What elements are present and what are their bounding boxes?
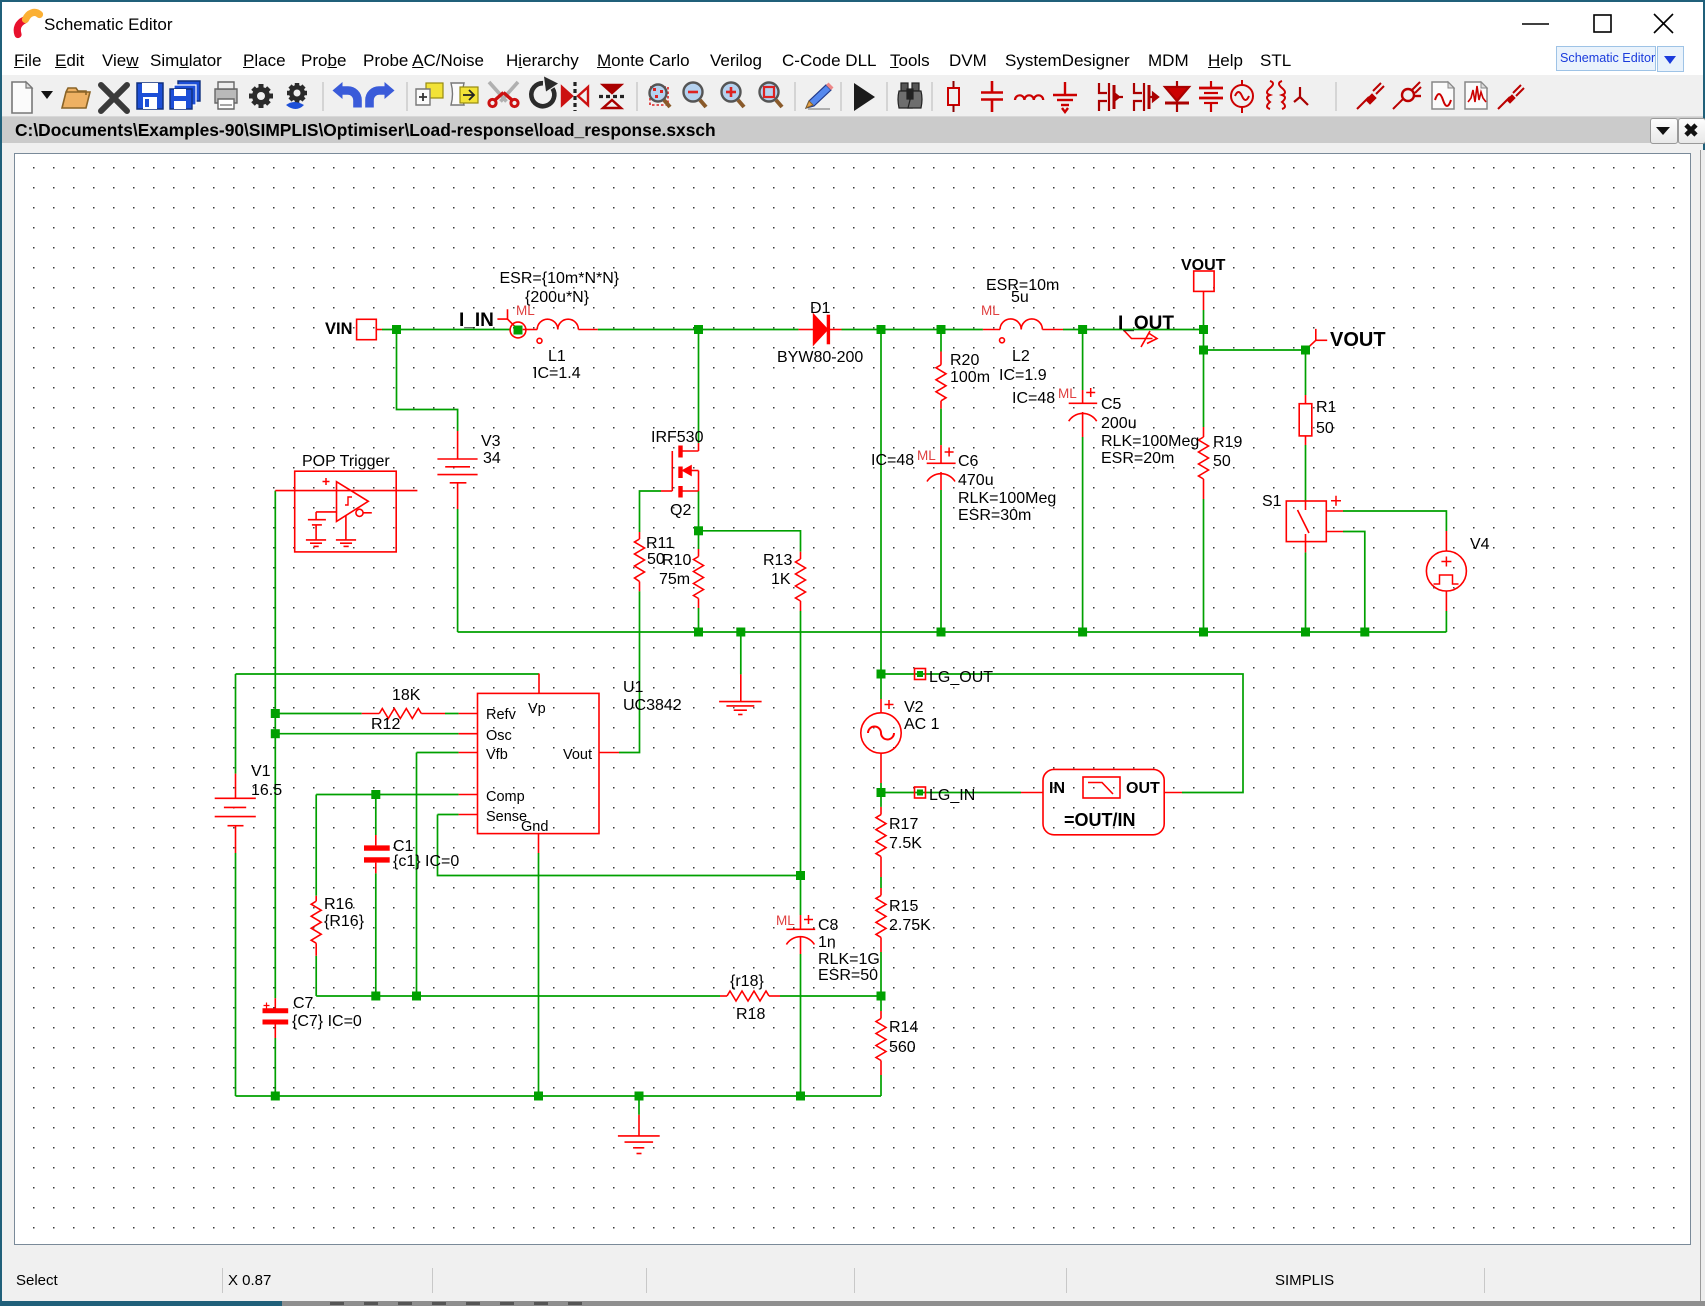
- svg-text:560: 560: [889, 1039, 916, 1056]
- svg-text:U1: U1: [623, 679, 644, 696]
- save: [137, 83, 163, 109]
- sine document: [1432, 82, 1454, 109]
- menu bar: [2, 44, 1703, 75]
- comp: probe marker: [1294, 87, 1308, 105]
- junction R20 branch / top rail: [937, 325, 946, 334]
- svg-text:1n: 1n: [818, 934, 836, 951]
- diode D1: [799, 315, 842, 345]
- capacitor C8: [786, 915, 815, 954]
- svg-text:R14: R14: [889, 1019, 918, 1036]
- junction R13-C8 / Sense wire: [796, 871, 805, 880]
- wire mid rail: [458, 631, 1447, 633]
- netflag square LG_OUT: [917, 671, 923, 677]
- svg-text:5u: 5u: [1011, 289, 1029, 306]
- pencil: [806, 83, 834, 110]
- wire R14 bottom to rail: [880, 1075, 882, 1096]
- svg-text:7.5K: 7.5K: [889, 835, 922, 852]
- svg-text:470u: 470u: [958, 472, 994, 489]
- source V4: [1426, 531, 1466, 611]
- comp: capacitor: [981, 81, 1003, 112]
- wire Osc: [275, 733, 458, 735]
- wire LG_OUT loop: [881, 674, 1243, 793]
- block OUT/IN transfer: [1021, 769, 1182, 834]
- svg-text:75m: 75m: [659, 571, 690, 588]
- resistor R13: [796, 552, 806, 611]
- junction ground sym / bottom rail: [635, 1092, 644, 1101]
- resistor R12 18K: [362, 709, 445, 719]
- probe I_IN: [497, 309, 526, 338]
- resistor R19: [1199, 427, 1209, 499]
- svg-text:LG_OUT: LG_OUT: [929, 669, 993, 686]
- app logo: [17, 20, 24, 35]
- toolbar: [2, 75, 1703, 117]
- wire Comp: [316, 794, 458, 796]
- netflag LG_IN: [915, 787, 926, 798]
- wire D1 to L2: [842, 329, 983, 331]
- terminal VOUT top: [1194, 271, 1214, 310]
- resistor R16: [311, 896, 321, 956]
- wire R1 to S1: [1305, 445, 1307, 501]
- wire R17 chain: [880, 793, 882, 807]
- capacitor C5: [1069, 388, 1098, 437]
- comp: battery: [1199, 81, 1223, 112]
- svg-text:ML: ML: [1058, 386, 1077, 401]
- zoom select: [650, 85, 671, 108]
- POP trigger block: [275, 471, 417, 552]
- junction C5 / mid rail: [1078, 628, 1087, 637]
- ML labels: [516, 303, 1077, 928]
- svg-text:50: 50: [1213, 453, 1231, 470]
- svg-text:V2: V2: [904, 699, 924, 716]
- junction C8 / bottom rail: [796, 1092, 805, 1101]
- print: [215, 89, 237, 103]
- redo: [370, 91, 387, 108]
- junction S1 / mid rail: [1301, 628, 1310, 637]
- wire source to R13: [699, 531, 801, 552]
- probe pen 2 current: [1393, 82, 1421, 109]
- wire C8 top: [800, 876, 802, 916]
- wire R19 bottom to rail: [1203, 499, 1205, 632]
- svg-text:D1: D1: [810, 300, 831, 317]
- resistor R1: [1299, 395, 1312, 445]
- resistor R15: [876, 888, 886, 952]
- wire R16 bottom: [315, 956, 317, 996]
- wire V2 bottom: [880, 783, 882, 793]
- junction C1 / Comp wire: [371, 790, 380, 799]
- svg-text:ESR=50: ESR=50: [818, 967, 878, 984]
- zoom box: [760, 83, 783, 108]
- resistor R10: [694, 549, 704, 608]
- resistor R11: [635, 532, 645, 591]
- ground mid: [719, 674, 762, 714]
- wire VIN branch down to V3: [397, 330, 458, 432]
- wire Gnd pin down: [538, 853, 540, 1096]
- svg-text:R13: R13: [763, 552, 792, 569]
- svg-text:LG_IN: LG_IN: [929, 787, 975, 804]
- svg-text:Refv: Refv: [486, 707, 517, 723]
- svg-text:ML: ML: [776, 913, 795, 928]
- wire LG_IN to block: [881, 792, 1021, 794]
- rotate: [531, 83, 554, 106]
- svg-text:R1: R1: [1316, 399, 1337, 416]
- junction Q2 source node: [694, 526, 703, 535]
- wire C1 top: [375, 795, 377, 836]
- wire C8 bottom: [800, 954, 802, 1096]
- svg-text:Vp: Vp: [528, 701, 546, 717]
- paste to sheet: [451, 83, 464, 105]
- wire R1 top: [1305, 350, 1307, 395]
- svg-text:R12: R12: [371, 716, 400, 733]
- svg-text:R19: R19: [1213, 434, 1242, 451]
- comp: nmos 2: [1134, 83, 1158, 111]
- svg-text:ESR=30m: ESR=30m: [958, 507, 1031, 524]
- svg-text:{R16}: {R16}: [324, 913, 365, 930]
- capacitor C1: [364, 835, 390, 873]
- svg-text:R18: R18: [736, 1006, 765, 1023]
- comp: ac source: [1231, 80, 1253, 113]
- resistor R17: [876, 807, 886, 877]
- copy to sheet: [426, 83, 443, 98]
- inductor L1: [523, 319, 598, 343]
- svg-text:RLK=100Meg: RLK=100Meg: [1101, 433, 1199, 450]
- junction Refv wire: [271, 709, 280, 718]
- terminal VIN: [357, 319, 382, 339]
- cut scissors: [489, 82, 518, 107]
- comp: inductor: [1015, 95, 1043, 100]
- wire R17-R15: [880, 877, 882, 888]
- svg-text:ML: ML: [516, 303, 535, 318]
- wire Refv: [275, 713, 361, 715]
- wire bottom ground stem: [638, 1096, 640, 1115]
- junction Vfb / feedback wire: [412, 992, 421, 1001]
- options gear: [249, 84, 273, 108]
- svg-text:UC3842: UC3842: [623, 697, 682, 714]
- mosfet Q2: [661, 443, 699, 498]
- junction C5 branch / top rail: [1078, 325, 1087, 334]
- svg-text:C7: C7: [293, 995, 314, 1012]
- junction C7 / bottom rail: [271, 1092, 280, 1101]
- wire V1 top: [235, 674, 237, 774]
- title bar: [2, 2, 1703, 44]
- wire R11 to Vout pin: [619, 591, 640, 752]
- wire VOUT terminal lead: [1203, 310, 1205, 330]
- svg-text:R11: R11: [646, 535, 674, 552]
- wire POP to Refv/Osc column: [274, 491, 276, 999]
- svg-text:ML: ML: [981, 303, 1000, 318]
- junction I_IN probe node: [514, 326, 523, 335]
- wire output sense drop: [880, 330, 882, 675]
- svg-text:34: 34: [483, 450, 501, 467]
- wire Sense: [438, 814, 459, 816]
- svg-text:S1: S1: [1262, 493, 1282, 510]
- svg-text:VOUT: VOUT: [1330, 329, 1386, 351]
- wire S1 to V4: [1343, 511, 1446, 531]
- svg-text:Vout: Vout: [563, 747, 592, 763]
- probe I_OUT arrow: [1124, 331, 1157, 348]
- svg-text:R17: R17: [889, 816, 918, 833]
- svg-text:I_OUT: I_OUT: [1118, 313, 1174, 334]
- close X: [101, 85, 127, 111]
- svg-text:R16: R16: [324, 896, 353, 913]
- resistor R18: [720, 991, 780, 1001]
- run/play: [854, 83, 875, 111]
- zoom in: [722, 83, 745, 108]
- wire C1 bottom: [375, 873, 377, 996]
- resistor R20: [936, 352, 946, 409]
- svg-text:{r18}: {r18}: [730, 973, 764, 990]
- junction VIN node: [392, 325, 401, 334]
- svg-text:{C7} IC=0: {C7} IC=0: [292, 1013, 362, 1030]
- bottom edge: window border + sliver of window behind: [0, 1301, 282, 1306]
- junction I_OUT / VOUT node: [1199, 325, 1208, 334]
- capacitor C6: [927, 445, 956, 490]
- inductor L2: [983, 319, 1063, 343]
- junction R10 / mid rail: [694, 628, 703, 637]
- svg-text:R15: R15: [889, 898, 918, 915]
- svg-text:RLK=100Meg: RLK=100Meg: [958, 490, 1056, 507]
- probe pen 3: [1498, 85, 1524, 109]
- wire mid ground stem: [740, 632, 742, 674]
- junction LG_IN node: [877, 788, 886, 797]
- wire Q2 gate to R11: [640, 491, 662, 532]
- wire Vp feed: [236, 673, 540, 675]
- battery V1: [215, 774, 256, 853]
- svg-text:V4: V4: [1470, 536, 1490, 553]
- comp: ground: [1053, 82, 1077, 112]
- junction ground / mid rail: [736, 628, 745, 637]
- wire VIN to I_IN probe: [382, 329, 510, 331]
- svg-text:{c1} IC=0: {c1} IC=0: [393, 853, 459, 870]
- window buttons: [1522, 23, 1549, 25]
- open folder: [62, 88, 90, 108]
- svg-text:OUT: OUT: [1126, 780, 1160, 797]
- junction C6 / mid rail: [937, 628, 946, 637]
- status bar: [2, 1245, 1703, 1304]
- svg-text:R10: R10: [662, 552, 691, 569]
- wire C5 top: [1082, 330, 1084, 391]
- tag VOUT: [1306, 329, 1328, 350]
- junction R19 / mid rail: [1199, 628, 1208, 637]
- junction injection branch / top rail: [877, 325, 886, 334]
- resistor R14: [876, 1011, 886, 1075]
- svg-text:IC=1.9: IC=1.9: [999, 367, 1047, 384]
- junction Gnd pin / bottom rail: [534, 1092, 543, 1101]
- simulator options gear: [286, 83, 307, 109]
- wire R19 top lead: [1203, 350, 1205, 427]
- mirror vertical: [562, 87, 588, 105]
- wire Q2 drain: [698, 330, 700, 444]
- junction Osc wire: [271, 729, 280, 738]
- wire V3 bottom to mid rail: [457, 509, 459, 632]
- svg-text:IC=48: IC=48: [871, 452, 914, 469]
- svg-text:IN: IN: [1049, 780, 1065, 797]
- svg-text:POP Trigger: POP Trigger: [302, 453, 390, 470]
- ground bottom: [618, 1115, 660, 1154]
- svg-text:16.5: 16.5: [251, 782, 282, 799]
- junction R1 branch / VOUT rail: [1301, 346, 1310, 355]
- wire bottom rail: [236, 1095, 882, 1097]
- wire S1 pole to rail: [1305, 552, 1307, 632]
- svg-text:100m: 100m: [950, 369, 990, 386]
- wire C6 bottom: [940, 490, 942, 632]
- new document: [12, 82, 32, 113]
- svg-text:2.75K: 2.75K: [889, 917, 931, 934]
- wire feedback bottom: [316, 995, 720, 997]
- wire Q2 source to R10: [698, 491, 700, 549]
- svg-text:=OUT/IN: =OUT/IN: [1064, 810, 1136, 830]
- svg-text:R20: R20: [950, 352, 979, 369]
- svg-text:C8: C8: [818, 917, 839, 934]
- svg-text:AC 1: AC 1: [904, 716, 940, 733]
- svg-text:BYW80-200: BYW80-200: [777, 349, 863, 366]
- svg-text:IC=1.4: IC=1.4: [533, 365, 581, 382]
- wire R15 to junction: [880, 952, 882, 1011]
- netflag LG_OUT: [915, 669, 926, 680]
- svg-text:I_IN: I_IN: [459, 310, 494, 331]
- svg-text:L2: L2: [1012, 348, 1030, 365]
- netflag square LG_IN: [917, 790, 923, 796]
- junction C1 / feedback wire: [371, 992, 380, 1001]
- svg-text:C6: C6: [958, 453, 979, 470]
- wire C5 bottom: [1082, 437, 1084, 632]
- wire S1 bottom terminal to rail: [1343, 532, 1365, 633]
- svg-text:VOUT: VOUT: [1181, 257, 1226, 274]
- junction LG_OUT node: [877, 670, 886, 679]
- wire R10 bottom: [698, 608, 700, 632]
- svg-text:1K: 1K: [771, 571, 791, 588]
- comp: diode: [1165, 81, 1189, 112]
- svg-text:ML: ML: [917, 448, 936, 463]
- wire out rail second: [1204, 349, 1306, 351]
- undo: [341, 91, 358, 108]
- junction Q2 drain / top rail: [694, 325, 703, 334]
- save all: [178, 81, 200, 101]
- svg-text:VIN: VIN: [325, 320, 353, 338]
- wire VOUT node down: [1203, 330, 1205, 351]
- wire Vfb: [417, 752, 459, 754]
- path bar: [2, 117, 1703, 143]
- wire L1 to D1: [598, 329, 799, 331]
- svg-text:ESR={10m*N*N}: ESR={10m*N*N}: [500, 270, 620, 287]
- svg-text:Osc: Osc: [486, 728, 512, 744]
- wire R13 bottom to sense node: [800, 611, 802, 876]
- wire R20 to C6: [940, 409, 942, 446]
- svg-text:V3: V3: [481, 433, 501, 450]
- comp: nmos 1: [1099, 83, 1123, 111]
- svg-text:L1: L1: [548, 348, 566, 365]
- svg-text:IC=48: IC=48: [1012, 390, 1055, 407]
- wire V1 bottom: [235, 853, 237, 1096]
- comp: coupled inductors: [1267, 81, 1285, 109]
- switch S1: [1286, 496, 1343, 553]
- junction S1 return / mid rail: [1360, 628, 1369, 637]
- wire L2 to VOUT node: [1063, 329, 1204, 331]
- junction VOUT rail node: [1199, 346, 1208, 355]
- svg-text:ESR=20m: ESR=20m: [1101, 450, 1174, 467]
- schematic text labels: [251, 257, 1490, 1056]
- svg-text:Vfb: Vfb: [486, 747, 508, 763]
- zoom out: [684, 83, 707, 108]
- junction R18-R15-R14 node: [877, 992, 886, 1001]
- svg-text:200u: 200u: [1101, 415, 1137, 432]
- svg-text:Comp: Comp: [486, 789, 525, 805]
- svg-text:RLK=1G: RLK=1G: [818, 951, 880, 968]
- svg-text:18K: 18K: [392, 687, 421, 704]
- wire V2 top: [880, 674, 882, 699]
- find binoculars: [898, 83, 922, 108]
- svg-text:V1: V1: [251, 763, 271, 780]
- battery V3: [437, 431, 477, 509]
- comp: resistor: [948, 81, 959, 112]
- svg-text:IRF530: IRF530: [651, 429, 704, 446]
- svg-text:Q2: Q2: [670, 502, 691, 519]
- svg-text:50: 50: [1316, 420, 1334, 437]
- wire C7 bottom: [274, 1038, 276, 1096]
- capacitor C7: [263, 998, 289, 1038]
- source V2: [861, 699, 901, 783]
- svg-text:C5: C5: [1101, 396, 1122, 413]
- probe pen 1: [1357, 83, 1384, 109]
- ic U1 UC3842: [459, 674, 619, 854]
- mirror horizontal: [603, 85, 621, 108]
- wire R20 top: [940, 330, 942, 352]
- fourier document: [1465, 82, 1487, 109]
- wire V4 bottom to rail: [1445, 611, 1447, 632]
- svg-text:Gnd: Gnd: [521, 819, 548, 835]
